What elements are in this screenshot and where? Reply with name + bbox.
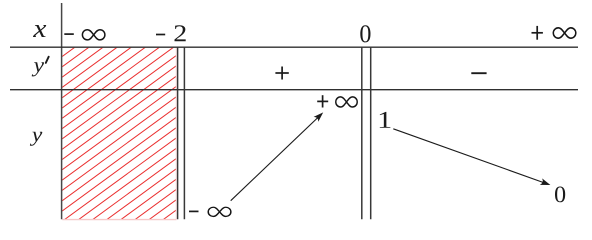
digit 0 top (360, 25, 370, 42)
infinity of bottom -infinity (208, 207, 231, 216)
label y' (32, 62, 44, 76)
digit 0 bottom (555, 187, 565, 203)
hatch pattern boundary fringe bottom (62, 219, 176, 221)
double bar at x=-2 (177, 47, 179, 219)
falling arrow (393, 129, 543, 183)
label x (33, 25, 46, 37)
label y (30, 132, 42, 146)
plus of top +infinity (532, 32, 543, 34)
wire: row separator under x row (10, 46, 578, 48)
rising arrow (231, 118, 318, 201)
double bar at x=0 (361, 47, 363, 219)
plus of mid +infinity (317, 100, 328, 102)
infinity of top +infinity (553, 28, 576, 38)
minus of bottom -infinity (189, 210, 199, 212)
wire: row separator under y' row (10, 89, 578, 91)
digit 1 (380, 112, 391, 128)
infinity of mid +infinity (336, 97, 357, 107)
minus sign in y' row (471, 72, 486, 74)
wire: header column separator (vertical line) (61, 3, 63, 219)
infinity of top -infinity (82, 30, 105, 40)
digit 2 (174, 25, 185, 41)
hatched excluded region (0, 44, 404, 225)
hatch pattern boundary fringe right (175, 48, 177, 220)
minus of top -infinity (64, 33, 74, 35)
minus of -2 (156, 34, 165, 36)
plus sign in y' row (275, 72, 288, 74)
